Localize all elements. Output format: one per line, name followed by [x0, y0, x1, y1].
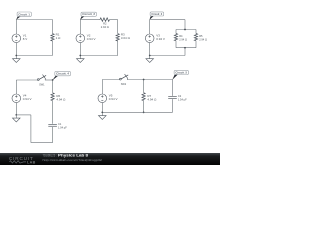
svg-text:3.04 Ω: 3.04 Ω [121, 36, 131, 40]
svg-text:Circuit_3: Circuit_3 [151, 12, 162, 16]
svg-text:0.94 V: 0.94 V [87, 37, 96, 41]
svg-text:8 V: 8 V [23, 37, 28, 41]
svg-text:R4: R4 [179, 34, 183, 38]
svg-text:SW1: SW1 [39, 84, 45, 87]
svg-text:1 Ω: 1 Ω [56, 36, 62, 40]
svg-text:Circuit_2: Circuit_2 [82, 12, 95, 16]
svg-text:2.94 Ω: 2.94 Ω [179, 38, 187, 42]
svg-text:2.94 Ω: 2.94 Ω [199, 38, 207, 42]
svg-text:C1: C1 [58, 122, 62, 126]
svg-text:SW2: SW2 [121, 83, 127, 86]
svg-text:R2: R2 [103, 22, 107, 26]
svg-text:Circuit_1: Circuit_1 [18, 12, 30, 16]
svg-text:1.54 µF: 1.54 µF [178, 98, 187, 102]
svg-text:0.94 V: 0.94 V [109, 97, 118, 101]
svg-text:2.94 Ω: 2.94 Ω [101, 25, 109, 29]
svg-text:http://circuitlab.com/c/7de2p9: http://circuitlab.com/c/7de2p9mgp32 [43, 158, 103, 162]
svg-text:4.94 Ω: 4.94 Ω [56, 97, 66, 101]
svg-text:C2: C2 [178, 94, 182, 98]
svg-text:R5: R5 [199, 34, 203, 38]
svg-text:LAB: LAB [27, 160, 36, 164]
svg-text:Physics Lab 8: Physics Lab 8 [58, 153, 88, 157]
svg-text:4.94 Ω: 4.94 Ω [147, 97, 157, 101]
svg-text:1.04 µF: 1.04 µF [58, 126, 67, 130]
svg-text:0.94 V: 0.94 V [23, 97, 32, 101]
svg-text:Circuit_5: Circuit_5 [175, 70, 187, 74]
svg-text:0.94 V: 0.94 V [156, 37, 165, 41]
svg-text:7DU96L23 :: 7DU96L23 : [43, 153, 57, 157]
svg-text:Circuit_4: Circuit_4 [56, 72, 69, 76]
